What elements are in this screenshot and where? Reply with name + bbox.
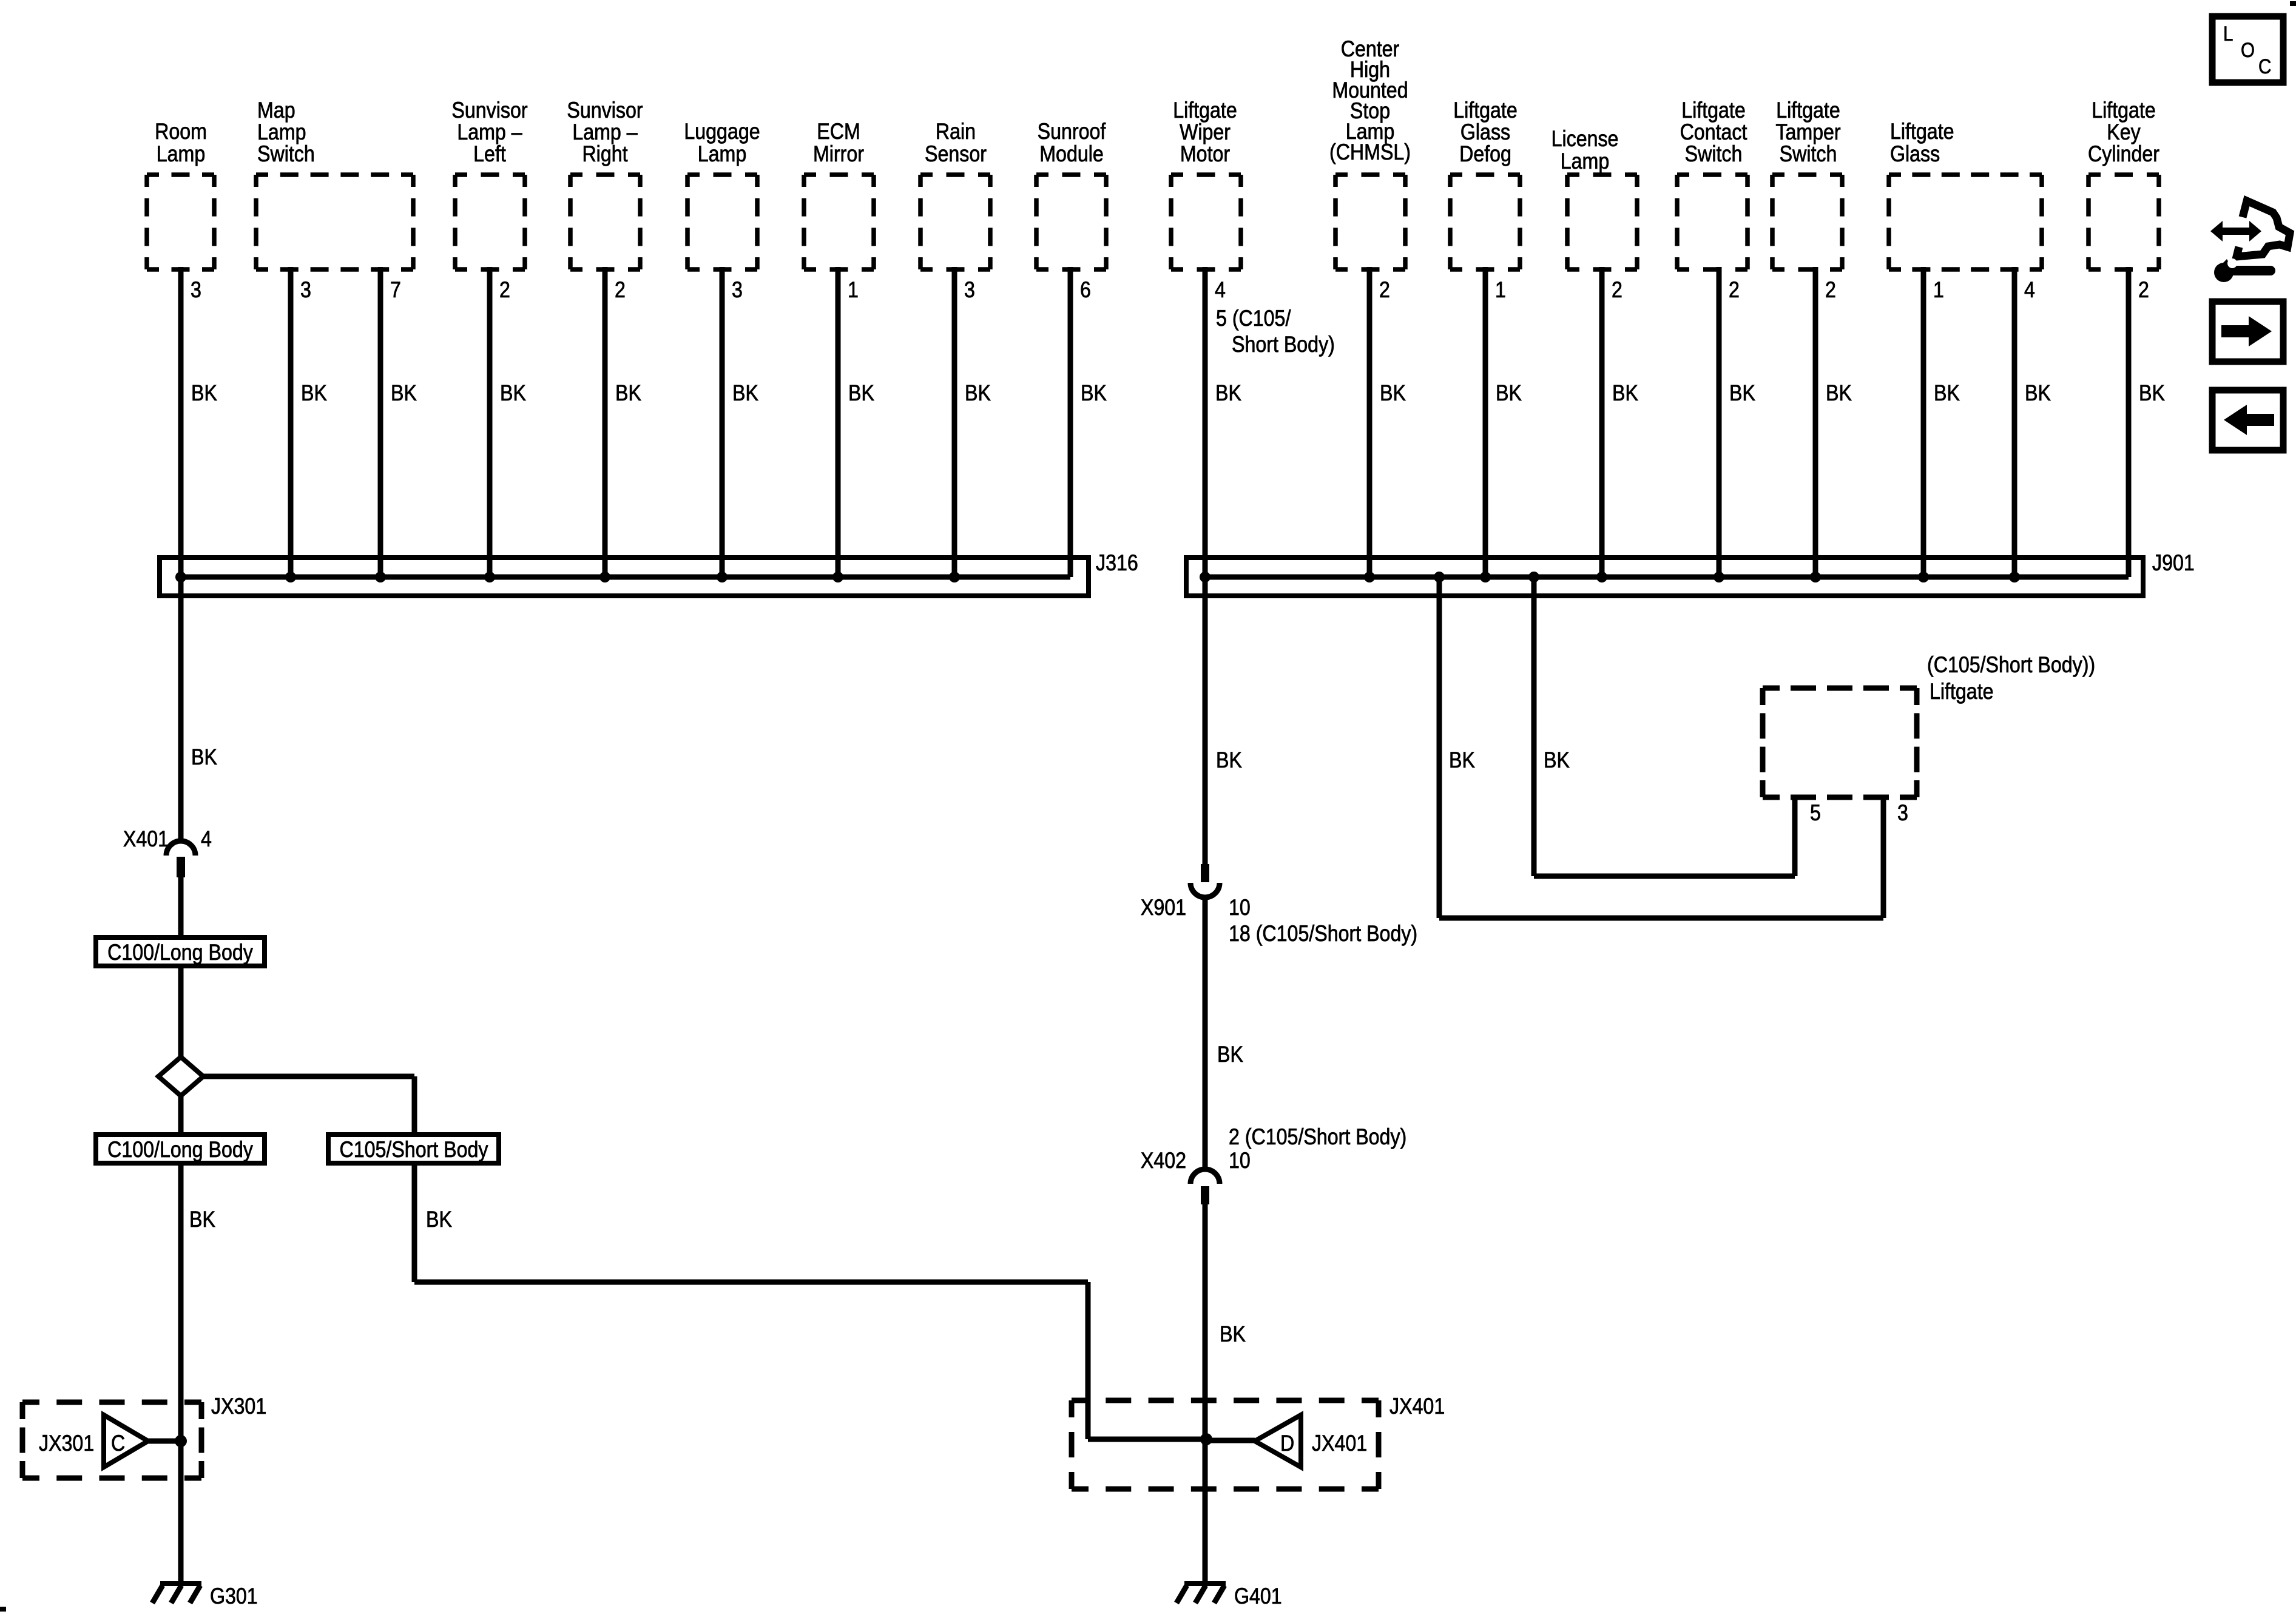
svg-text:BK: BK [1612, 381, 1638, 406]
svg-text:3: 3 [1897, 801, 1908, 826]
svg-text:BK: BK [391, 381, 417, 406]
svg-text:X401: X401 [123, 827, 169, 852]
svg-text:Key: Key [2107, 120, 2141, 145]
svg-text:BK: BK [189, 1207, 215, 1232]
svg-text:Right: Right [582, 142, 627, 167]
svg-text:10: 10 [1229, 896, 1251, 920]
svg-text:BK: BK [1081, 381, 1107, 406]
svg-text:2: 2 [2138, 278, 2149, 303]
svg-text:Sunroof: Sunroof [1038, 120, 1106, 144]
svg-text:D: D [1280, 1431, 1294, 1456]
svg-text:G401: G401 [1234, 1584, 1282, 1609]
svg-text:BK: BK [965, 381, 991, 406]
svg-text:Lamp: Lamp [698, 142, 746, 167]
svg-text:Defog: Defog [1459, 142, 1511, 167]
svg-text:4: 4 [1215, 278, 1226, 303]
svg-text:BK: BK [2025, 381, 2051, 406]
svg-text:Liftgate: Liftgate [1173, 98, 1237, 123]
svg-text:2 (C105/Short Body): 2 (C105/Short Body) [1229, 1125, 1406, 1150]
svg-text:BK: BK [848, 381, 874, 406]
svg-text:BK: BK [1216, 748, 1242, 773]
svg-text:BK: BK [1215, 381, 1241, 406]
svg-text:C: C [2258, 55, 2271, 78]
svg-text:Module: Module [1039, 142, 1104, 167]
svg-text:BK: BK [500, 381, 526, 406]
svg-text:BK: BK [191, 745, 217, 770]
svg-text:5: 5 [1810, 801, 1821, 826]
svg-text:2: 2 [499, 278, 510, 303]
svg-text:J316: J316 [1096, 551, 1138, 576]
svg-text:3: 3 [191, 278, 201, 303]
svg-text:Tamper: Tamper [1775, 120, 1840, 145]
svg-text:5 (C105/: 5 (C105/ [1216, 306, 1291, 331]
svg-text:2: 2 [615, 278, 626, 303]
svg-text:Liftgate: Liftgate [2092, 98, 2156, 123]
svg-text:Left: Left [473, 142, 506, 167]
svg-text:X402: X402 [1141, 1149, 1186, 1173]
svg-text:BK: BK [732, 381, 758, 406]
svg-text:Sensor: Sensor [925, 142, 987, 167]
svg-text:JX301: JX301 [39, 1431, 94, 1456]
svg-text:7: 7 [390, 278, 401, 303]
svg-text:Lamp: Lamp [1561, 149, 1609, 174]
svg-text:JX301: JX301 [211, 1394, 266, 1419]
svg-text:Switch: Switch [257, 142, 315, 167]
svg-text:4: 4 [201, 827, 212, 852]
svg-text:BK: BK [1496, 381, 1522, 406]
svg-text:ECM: ECM [817, 120, 860, 144]
svg-text:Glass: Glass [1460, 120, 1510, 145]
svg-text:Liftgate: Liftgate [1930, 680, 1994, 704]
svg-text:2: 2 [1379, 278, 1390, 303]
svg-text:3: 3 [732, 278, 743, 303]
svg-text:Room: Room [155, 120, 207, 144]
svg-text:BK: BK [1217, 1042, 1243, 1067]
svg-text:Contact: Contact [1680, 120, 1747, 145]
svg-text:Short Body): Short Body) [1232, 333, 1335, 357]
svg-text:Sunvisor: Sunvisor [567, 98, 643, 123]
svg-text:JX401: JX401 [1312, 1431, 1367, 1456]
svg-text:X901: X901 [1141, 896, 1186, 920]
svg-text:BK: BK [1826, 381, 1852, 406]
svg-text:J901: J901 [2152, 551, 2195, 576]
svg-text:Liftgate: Liftgate [1453, 98, 1518, 123]
svg-text:BK: BK [191, 381, 217, 406]
svg-text:4: 4 [2024, 278, 2035, 303]
svg-text:Switch: Switch [1685, 142, 1743, 167]
svg-text:BK: BK [1220, 1322, 1246, 1347]
svg-text:Map: Map [257, 98, 295, 123]
svg-text:BK: BK [1729, 381, 1755, 406]
svg-text:Switch: Switch [1780, 142, 1837, 167]
svg-text:6: 6 [1080, 278, 1091, 303]
svg-text:2: 2 [1729, 278, 1740, 303]
svg-text:BK: BK [1449, 748, 1475, 773]
svg-text:Lamp: Lamp [157, 142, 205, 167]
svg-text:C105/Short Body: C105/Short Body [340, 1138, 489, 1163]
svg-text:BK: BK [301, 381, 327, 406]
svg-text:Rain: Rain [936, 120, 976, 144]
svg-text:Cylinder: Cylinder [2088, 142, 2159, 167]
svg-text:(CHMSL): (CHMSL) [1329, 140, 1411, 165]
svg-text:3: 3 [964, 278, 975, 303]
svg-text:Luggage: Luggage [684, 120, 760, 144]
svg-text:Wiper: Wiper [1180, 120, 1231, 145]
svg-text:License: License [1551, 127, 1619, 152]
svg-text:1: 1 [1495, 278, 1506, 303]
svg-text:Lamp: Lamp [257, 120, 306, 145]
svg-text:18 (C105/Short Body): 18 (C105/Short Body) [1229, 922, 1417, 947]
svg-text:BK: BK [1544, 748, 1570, 773]
svg-text:Glass: Glass [1890, 142, 1940, 167]
svg-text:(C105/Short Body)): (C105/Short Body)) [1927, 653, 2095, 678]
svg-text:2: 2 [1612, 278, 1622, 303]
svg-text:1: 1 [1933, 278, 1944, 303]
svg-text:10: 10 [1229, 1149, 1251, 1173]
svg-text:C: C [111, 1431, 125, 1456]
svg-text:Liftgate: Liftgate [1776, 98, 1840, 123]
svg-text:C100/Long Body: C100/Long Body [107, 940, 253, 965]
svg-text:Motor: Motor [1180, 142, 1230, 167]
svg-text:BK: BK [1934, 381, 1960, 406]
svg-text:Sunvisor: Sunvisor [451, 98, 527, 123]
svg-text:BK: BK [2139, 381, 2165, 406]
svg-text:Lamp –: Lamp – [572, 120, 638, 145]
svg-text:3: 3 [300, 278, 311, 303]
svg-text:Liftgate: Liftgate [1890, 120, 1954, 144]
svg-text:G301: G301 [210, 1584, 258, 1609]
svg-text:Mirror: Mirror [813, 142, 864, 167]
svg-text:1: 1 [848, 278, 859, 303]
svg-text:BK: BK [426, 1207, 452, 1232]
svg-text:JX401: JX401 [1389, 1394, 1445, 1419]
svg-text:BK: BK [1380, 381, 1406, 406]
svg-text:2: 2 [1825, 278, 1836, 303]
svg-text:Lamp –: Lamp – [457, 120, 522, 145]
svg-text:O: O [2241, 38, 2255, 61]
svg-text:BK: BK [615, 381, 641, 406]
svg-text:Liftgate: Liftgate [1681, 98, 1746, 123]
svg-text:C100/Long Body: C100/Long Body [107, 1138, 253, 1163]
svg-text:L: L [2223, 22, 2233, 45]
